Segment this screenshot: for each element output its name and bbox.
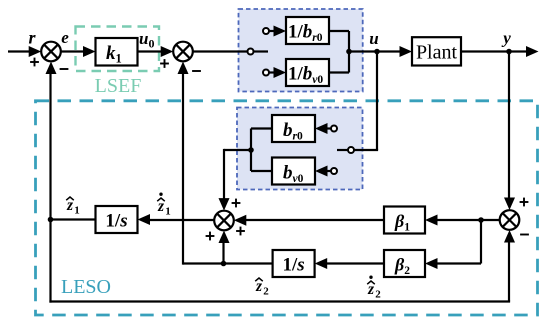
svg-text:e: e (61, 28, 69, 47)
svg-text:1/s: 1/s (283, 255, 305, 276)
svg-text:r: r (28, 28, 36, 48)
svg-text:Plant: Plant (416, 42, 458, 64)
svg-text:2: 2 (263, 286, 269, 298)
svg-text:u: u (369, 29, 378, 48)
svg-text:1/s: 1/s (105, 211, 127, 232)
svg-text:LESO: LESO (61, 276, 111, 298)
svg-text:2: 2 (375, 289, 381, 301)
svg-text:LSEF: LSEF (95, 75, 142, 97)
svg-text:y: y (501, 29, 511, 48)
svg-text:1: 1 (74, 205, 80, 217)
svg-text:1: 1 (165, 206, 171, 218)
